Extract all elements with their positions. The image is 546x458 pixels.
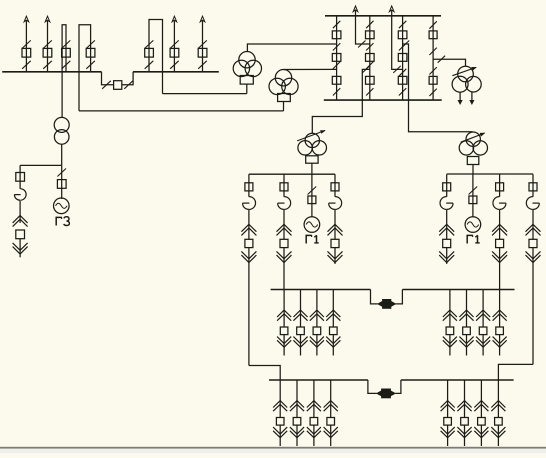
- wire: feeder W5 loop: [149, 20, 163, 94]
- transformer T3 winding HV (circle): [458, 66, 474, 82]
- generator bus GB2: [447, 173, 533, 175]
- distribution bus C2-right: [401, 379, 514, 381]
- breaker L5-1 (box): [496, 183, 504, 191]
- wire: branch L1 lower: [248, 248, 250, 366]
- breaker Q3-1 (box): [398, 31, 407, 39]
- bus-tie breaker Q-A (box): [114, 81, 122, 90]
- wire: T3 MV down lead: [459, 92, 461, 100]
- wire: feeder W4 loop: [79, 25, 91, 111]
- cable chevrons (down) C1R-3: [476, 337, 490, 348]
- cable chevrons (up) C1L-3: [310, 310, 324, 321]
- breaker Q1-2 (box): [332, 54, 341, 62]
- transformer T2 winding HV (circle): [275, 70, 291, 86]
- wire: T2 high side link: [284, 68, 337, 70]
- busbar A1 (left main bus, section 1): [2, 71, 101, 73]
- wire: feeder C2R-2 lower: [464, 425, 466, 446]
- cable chevrons (down) L3: [328, 251, 343, 262]
- wire: breaker string Q1: [336, 16, 338, 100]
- breaker C1R-1 (box): [446, 327, 454, 335]
- outgoing line W2 wire: [47, 21, 49, 72]
- disconnector TG1 link (slash): [362, 66, 369, 73]
- disconnector G1b (slash): [469, 187, 478, 195]
- transformer T2 terminal box: [278, 94, 291, 102]
- disconnector W4-1 (slash): [86, 40, 95, 48]
- wire: branch L3 drop: [334, 174, 336, 197]
- cable chevrons (down) C2L-4: [324, 427, 338, 438]
- cable chevrons (up) C1R-2: [459, 310, 473, 321]
- cable chevrons (up) C2R-2: [457, 401, 471, 412]
- disconnector Q2-2 (slash): [366, 43, 373, 50]
- transformer T1 terminal box: [240, 76, 253, 85]
- generator G1b sine mark: [467, 222, 479, 227]
- wire: link W4 to transformer T2: [79, 110, 284, 112]
- breaker C2R-4 (box): [495, 418, 503, 426]
- outgoing line A2 arrow head: [389, 6, 394, 12]
- wire: branch L5 drop: [499, 174, 501, 197]
- transformer TG2 winding MV (circle): [459, 141, 473, 155]
- wire: feeder C2R-3 lower: [480, 425, 482, 446]
- wire: branch L6 mid: [532, 209, 534, 239]
- wire: tie-1 left drop: [371, 290, 378, 304]
- disconnector Q3-4 (slash): [399, 88, 406, 95]
- wire: feeder C1L-3 upper: [316, 290, 318, 328]
- wire: feeder C2L-1 lower: [279, 425, 281, 446]
- cable chevrons (down) L4: [439, 251, 454, 262]
- wire: branch L2 mid: [283, 209, 285, 239]
- wire: feeder C2L-3 upper: [313, 380, 315, 418]
- disconnector Q1-3 (slash): [333, 62, 340, 69]
- wire: feeder C2R-1 lower: [447, 425, 449, 446]
- breaker Q4-2 (box): [429, 76, 437, 84]
- wire: TG2 low lead: [472, 165, 474, 175]
- wire: feeder C2L-4 upper: [330, 380, 332, 418]
- disconnector G1a (slash): [308, 187, 317, 195]
- breaker C1L-2 (box): [297, 327, 305, 335]
- cable chevrons (down) C2R-1: [441, 427, 455, 438]
- wire: feeder C1L-3 lower: [316, 334, 318, 355]
- disconnector QS-A2 (slash): [124, 81, 133, 89]
- breaker L2-2 (box): [280, 239, 288, 247]
- breaker L1-1 (box): [245, 183, 253, 191]
- wire: generator G1a lead: [311, 174, 313, 217]
- disconnector W4-2 (slash): [86, 61, 95, 69]
- transformer TG1 winding HV (circle): [305, 133, 319, 147]
- transformer T1 winding HV (circle): [239, 52, 255, 68]
- breaker Q3-3 (box): [398, 76, 407, 84]
- breaker G1b (box): [469, 196, 477, 204]
- breaker G1a (box): [308, 196, 316, 204]
- disconnector W2-1 (slash): [43, 40, 52, 48]
- cable chevrons (up) C1L-4: [326, 310, 340, 321]
- label G3: [56, 217, 70, 226]
- transformer TG1 terminal box: [306, 156, 318, 163]
- cable chevrons (down) L1: [241, 251, 256, 262]
- cable chevrons (down) C1L-3: [310, 337, 324, 348]
- wire: branch L2 drop: [283, 174, 285, 197]
- disconnector Q4-4 (slash): [429, 89, 436, 96]
- cable chevrons (up) C2R-3: [474, 401, 488, 412]
- outgoing line W2 arrow head: [45, 16, 50, 22]
- cable chevrons (up) L5: [492, 224, 507, 235]
- disconnector Q1-1 (slash): [333, 21, 340, 28]
- wire: tie-1 right rise: [396, 290, 403, 304]
- cable chevrons (up) C2L-4: [324, 401, 338, 412]
- wire: feeder C1L-2 lower: [300, 334, 302, 355]
- wire: L6 jog to bus D2: [498, 364, 533, 380]
- outgoing line W6 wire: [173, 21, 175, 72]
- wire: branch L3 lower: [334, 248, 336, 264]
- wire: link W5 to transformer T1: [163, 93, 247, 95]
- window bottom border: [0, 447, 546, 449]
- wire: branch W31 lower: [19, 239, 21, 258]
- wire: generator G1b lead: [472, 174, 474, 217]
- wire: branch W31 upper: [19, 165, 21, 188]
- cable chevrons (up) L3: [328, 224, 343, 235]
- disconnector W7-2 (slash): [198, 61, 207, 69]
- breaker W4 (box): [86, 48, 95, 57]
- generator G1a sine mark: [306, 222, 318, 227]
- cable chevrons (up) C1R-4: [493, 310, 507, 321]
- breaker C2L-1 (box): [276, 418, 284, 426]
- cable chevrons (down) C1R-1: [443, 337, 457, 348]
- breaker Q2-1 (box): [366, 31, 375, 39]
- cable chevrons (up) C2R-4: [491, 401, 505, 412]
- breaker C2L-2 (box): [293, 418, 301, 426]
- wire: branch W31 mid: [19, 201, 21, 223]
- wire: feeder C1R-3 lower: [482, 334, 484, 355]
- cable chevrons (up) L6: [526, 224, 541, 235]
- wire: feeder C1L-2 upper: [300, 290, 302, 328]
- breaker W3 (box): [62, 48, 71, 57]
- transformer T1 winding MV (circle): [233, 60, 249, 76]
- breaker L3-1 (box): [331, 183, 339, 191]
- disconnector Q4-2 (slash): [429, 48, 436, 55]
- transformer T3 tap arrow: [452, 67, 476, 75]
- breaker Q32 (box): [16, 230, 25, 239]
- disconnector Q2-3 (slash): [366, 62, 373, 69]
- cable chevrons (up) C1R-3: [476, 310, 490, 321]
- transformer T5 winding 1 (circle): [54, 117, 69, 132]
- label G1a: [306, 235, 319, 244]
- wire: feeder C1R-4 lower: [499, 334, 501, 355]
- breaker C1L-4 (box): [330, 327, 338, 335]
- cable chevrons (down) L6: [526, 251, 541, 262]
- cable chevrons (down) C1L-2: [293, 337, 307, 348]
- cable chevrons (up) C2R-1: [441, 401, 455, 412]
- wire: branch L6 lower: [532, 248, 534, 365]
- cable chevrons (up) L1: [241, 224, 256, 235]
- cable chevrons (up) C1L-1: [277, 310, 291, 321]
- wire: L1 jog to bus C2: [249, 366, 280, 381]
- wire: feeder C1R-2 lower: [466, 334, 468, 355]
- disconnector W3-2 (slash): [62, 61, 71, 69]
- cable chevrons (down) L2: [277, 251, 292, 262]
- wire: feeder C2R-4 lower: [497, 425, 499, 446]
- disconnector A2 (slash): [393, 66, 400, 73]
- wire: feeder C1L-1 upper: [283, 290, 285, 328]
- breaker C2R-1 (box): [444, 418, 452, 426]
- wire: G3 group tie: [20, 164, 62, 166]
- disconnector QS-A1 (slash): [102, 81, 111, 89]
- wire: bus section jumper right rise: [122, 72, 133, 85]
- wire: feeder C2L-1 upper: [279, 380, 281, 418]
- wire: feeder C2L-4 lower: [330, 425, 332, 446]
- breaker W6 (box): [170, 48, 179, 57]
- wire: breaker string Q2: [369, 16, 371, 100]
- cable chevrons (up) L4: [439, 224, 454, 235]
- wire: bus section jumper left drop: [102, 72, 114, 85]
- generator G1b (circle): [465, 217, 481, 233]
- cable chevrons (up) C1R-1: [443, 310, 457, 321]
- disconnector Q1-4 (slash): [333, 88, 340, 95]
- tie arrow left tie-1: [378, 302, 382, 306]
- transformer TG2 tap arrow: [461, 133, 485, 142]
- breaker L4-1 (box): [443, 183, 451, 191]
- reactor L6: [526, 197, 539, 210]
- cable chevrons (down) C1L-4: [326, 337, 340, 348]
- wire: TG1 high side link: [312, 69, 370, 133]
- reactor L4: [440, 197, 453, 210]
- disconnector W7-1 (slash): [198, 40, 207, 48]
- transformer T2 winding LV (circle): [282, 78, 298, 94]
- breaker W5 (box): [145, 48, 154, 57]
- transformer T3 winding LV (circle): [466, 76, 482, 92]
- outgoing line W7 wire: [202, 21, 204, 72]
- generator bus GB1: [249, 173, 335, 175]
- disconnector W1-2 (slash): [22, 61, 31, 69]
- wire: feeder C2R-2 upper: [464, 380, 466, 418]
- breaker C2L-4 (box): [327, 418, 335, 426]
- outgoing line A1 wire: [356, 11, 370, 45]
- reactor L1: [243, 197, 256, 210]
- disconnector Q4-1 (slash): [429, 21, 436, 28]
- cable termination chevrons (down) W31: [13, 243, 28, 254]
- breaker C1R-4 (box): [496, 327, 504, 335]
- wire: T1 high side link: [247, 44, 336, 52]
- wire: branch L3 mid: [334, 209, 336, 239]
- generator G3 (circle): [54, 198, 70, 214]
- transformer TG1 tap arrow: [297, 131, 325, 141]
- reactor L2: [278, 197, 291, 210]
- cable chevrons (down) C2L-3: [307, 427, 321, 438]
- generator G1a (circle): [304, 217, 320, 233]
- distribution bus C1-right: [402, 289, 514, 291]
- distribution bus C1-left: [271, 289, 371, 291]
- disconnector TG2 link (slash): [402, 41, 409, 48]
- wire: feeder C2R-1 upper: [447, 380, 449, 418]
- transformer T1 winding LV (circle): [245, 60, 261, 76]
- wire: feeder W3 loop: [62, 25, 66, 118]
- transformer TG2 terminal box: [467, 157, 479, 165]
- wire: feeder C2L-2 lower: [296, 425, 298, 446]
- cable termination chevrons (up) W31: [13, 216, 28, 227]
- transformer TG2 winding HV (circle): [466, 132, 480, 146]
- breaker L5-2 (box): [496, 239, 504, 247]
- disconnector Q4-3 (slash): [429, 67, 436, 74]
- outgoing line W1 arrow head: [24, 16, 29, 22]
- disconnector Q3-2 (slash): [399, 43, 406, 50]
- arrow down T3-LV: [470, 100, 474, 104]
- cable chevrons (down) C2R-2: [457, 427, 471, 438]
- breaker L1-2 (box): [245, 239, 253, 247]
- disconnector W6-1 (slash): [170, 40, 179, 48]
- cable chevrons (up) L2: [277, 224, 292, 235]
- breaker W7 (box): [198, 48, 207, 57]
- wire: feeder C1R-2 upper: [466, 290, 468, 328]
- breaker Q2-3 (box): [366, 76, 375, 84]
- breaker L3-2 (box): [331, 239, 339, 247]
- wire: branch L2 lower: [283, 248, 285, 290]
- disconnector W6-2 (slash): [170, 61, 179, 69]
- wire: breaker string Q3: [402, 16, 404, 100]
- transformer TG1 winding LV (circle): [312, 141, 326, 155]
- transformer TG1 winding MV (circle): [298, 141, 312, 155]
- breaker C1L-3 (box): [313, 327, 321, 335]
- wire: T3 high side link: [433, 59, 465, 66]
- wire: T5 low side lead: [61, 144, 63, 165]
- breaker Q31 (box): [16, 173, 25, 182]
- disconnector W3-1 (slash): [62, 40, 71, 48]
- breaker C2L-3 (box): [310, 418, 318, 426]
- breaker Q1-1 (box): [332, 31, 341, 39]
- reactor LR31: [14, 189, 26, 201]
- distribution bus C2-left: [269, 379, 368, 381]
- tie arrow right tie-2: [391, 391, 395, 395]
- wire: feeder C1R-1 upper: [449, 290, 451, 328]
- reactor L3: [329, 197, 342, 210]
- breaker C2R-2 (box): [461, 418, 469, 426]
- wire: T1 low lead: [246, 84, 248, 94]
- breaker L6-2 (box): [529, 239, 537, 247]
- disconnector W1-1 (slash): [22, 40, 31, 48]
- wire: tie-2 left drop: [368, 380, 377, 393]
- wire: branch L5 mid: [499, 209, 501, 239]
- wire: feeder C1L-4 upper: [332, 290, 334, 328]
- wire: branch L5 lower: [499, 248, 501, 290]
- wire: branch L4 drop: [446, 174, 448, 197]
- wire: branch L6 drop: [532, 174, 534, 197]
- outgoing line A1 arrow head: [353, 6, 358, 12]
- cable chevrons (up) C2L-1: [273, 401, 287, 412]
- disconnector T3 link (slash): [438, 56, 445, 63]
- disconnector Q3-1 (slash): [399, 21, 406, 28]
- busbar A2 (left main bus, section 2): [133, 71, 219, 73]
- wire: feeder C2L-2 upper: [296, 380, 298, 418]
- cable chevrons (down) C2L-2: [290, 427, 304, 438]
- outgoing line W6 arrow head: [172, 16, 177, 22]
- disconnector Q2-4 (slash): [366, 88, 373, 95]
- disconnector G3 (slash): [57, 169, 66, 177]
- generator G3 sine mark: [56, 203, 68, 208]
- wire: TG2 high side link: [403, 44, 473, 132]
- cable chevrons (up) C2L-3: [307, 401, 321, 412]
- breaker L4-2 (box): [443, 239, 451, 247]
- breaker Q4-1 (box): [429, 31, 437, 39]
- breaker Q2-2 (box): [366, 54, 375, 62]
- wire: T3 LV down lead: [471, 92, 473, 101]
- breaker C1L-1 (box): [280, 327, 288, 335]
- outgoing line W7 arrow head: [200, 16, 205, 22]
- breaker C1R-3 (box): [479, 327, 487, 335]
- transformer T5 winding 2 (circle): [54, 130, 69, 145]
- tie breaker tie-2 (closed, solid): [382, 389, 391, 398]
- breaker G3 (box): [57, 180, 66, 189]
- wire: breaker string Q4: [432, 16, 434, 100]
- cable chevrons (down) C2R-3: [474, 427, 488, 438]
- breaker L2-1 (box): [280, 183, 288, 191]
- wire: feeder C2L-3 lower: [313, 425, 315, 446]
- disconnector Q2-1 (slash): [366, 21, 373, 28]
- cable chevrons (up) C1L-2: [293, 310, 307, 321]
- transformer TG2 winding LV (circle): [473, 141, 487, 155]
- breaker C2R-3 (box): [478, 418, 486, 426]
- transformer T2 winding MV (circle): [269, 78, 285, 94]
- cable chevrons (down) C1R-4: [493, 337, 507, 348]
- wire: T2 low lead: [283, 102, 285, 111]
- wire: branch L1 mid: [248, 209, 250, 239]
- transformer T3 winding MV (circle): [452, 76, 468, 92]
- cable chevrons (down) C2R-4: [491, 427, 505, 438]
- disconnector W5-2 (slash): [145, 61, 154, 69]
- disconnector W5-1 (slash): [145, 40, 154, 48]
- tie arrow left tie-2: [377, 391, 381, 395]
- busbar B-top: [325, 15, 441, 17]
- arrow down T3-MV: [458, 100, 462, 104]
- disconnector Q3-3 (slash): [399, 69, 406, 76]
- wire: feeder C2R-4 upper: [497, 380, 499, 418]
- wire: branch L4 mid: [446, 209, 448, 239]
- breaker W2 (box): [43, 48, 52, 57]
- wire: branch L1 drop: [248, 174, 250, 197]
- breaker Q3-2 (box): [398, 54, 407, 62]
- cable chevrons (down) C1R-2: [459, 337, 473, 348]
- label G1b: [467, 235, 480, 244]
- busbar B-bottom: [324, 99, 442, 101]
- window bottom strip: [0, 449, 546, 453]
- wire: feeder C1R-3 upper: [482, 290, 484, 328]
- cable chevrons (down) C2L-1: [273, 427, 287, 438]
- wire: branch L4 lower: [446, 248, 448, 264]
- wire: feeder C1L-4 lower: [332, 334, 334, 355]
- tie breaker tie-1 (closed, solid): [383, 300, 391, 309]
- breaker W1 (box): [22, 48, 31, 57]
- disconnector W2-2 (slash): [43, 61, 52, 69]
- wire: TG1 low lead: [311, 163, 313, 174]
- wire: generator G3 lead: [61, 165, 63, 199]
- wire: tie-2 right rise: [395, 380, 401, 393]
- breaker C1R-2 (box): [463, 327, 471, 335]
- tie arrow right tie-1: [391, 302, 395, 306]
- reactor L5: [493, 197, 506, 210]
- wire: feeder C1L-1 lower: [283, 334, 285, 355]
- wire: feeder C1R-4 upper: [499, 290, 501, 328]
- disconnector Q1-2 (slash): [333, 43, 340, 50]
- outgoing line W1 wire: [25, 21, 27, 72]
- cable chevrons (down) C1L-1: [277, 337, 291, 348]
- cable chevrons (down) L5: [492, 251, 507, 262]
- breaker Q1-3 (box): [332, 76, 341, 84]
- cable chevrons (up) C2L-2: [290, 401, 304, 412]
- outgoing line A2 wire: [392, 11, 403, 70]
- wire: feeder C1R-1 lower: [449, 334, 451, 355]
- breaker L6-1 (box): [529, 183, 537, 191]
- disconnector A1 (slash): [358, 41, 365, 48]
- wire: feeder C2R-3 upper: [480, 380, 482, 418]
